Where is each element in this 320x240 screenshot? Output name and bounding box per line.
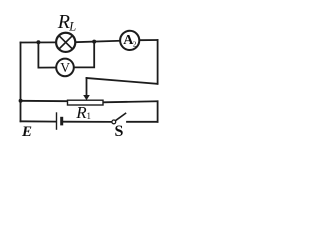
wire top-left horizontal (21, 41, 56, 43)
wire bottom left (21, 120, 57, 122)
node junction dot left-bottom (19, 99, 23, 103)
resistor R1 (rheostat) (68, 95, 104, 105)
wire slider vertical (86, 78, 88, 95)
wire voltmeter left branch (38, 42, 56, 67)
svg-text:E: E (21, 124, 32, 140)
wire bottom right of switch (127, 121, 158, 123)
battery E (57, 112, 62, 130)
wire rheostat right terminal (103, 101, 158, 102)
wire left vertical (20, 43, 22, 122)
svg-text:2: 2 (133, 40, 137, 49)
switch S (112, 113, 126, 124)
voltmeter V (56, 59, 74, 77)
wire right-bottom vertical (157, 101, 159, 122)
wire lamp to ammeter (76, 41, 120, 42)
wire ammeter to top-right corner (140, 39, 158, 41)
node junction dot left-top (36, 40, 40, 44)
svg-text:R: R (57, 11, 70, 33)
slider arrowhead (83, 95, 90, 100)
svg-text:1: 1 (87, 111, 92, 121)
wire battery to switch (64, 121, 112, 123)
wire slider top horizontal (87, 78, 158, 84)
svg-text:S: S (115, 123, 124, 140)
svg-text:R: R (75, 103, 87, 122)
lamp RL (56, 33, 75, 52)
wire right-top vertical (157, 40, 159, 84)
ammeter A2 (120, 31, 139, 50)
svg-text:L: L (68, 20, 76, 34)
svg-text:V: V (60, 60, 70, 75)
wire to rheostat left terminal (21, 100, 68, 102)
wire voltmeter right branch (74, 42, 94, 68)
node junction dot top mid (92, 40, 96, 44)
